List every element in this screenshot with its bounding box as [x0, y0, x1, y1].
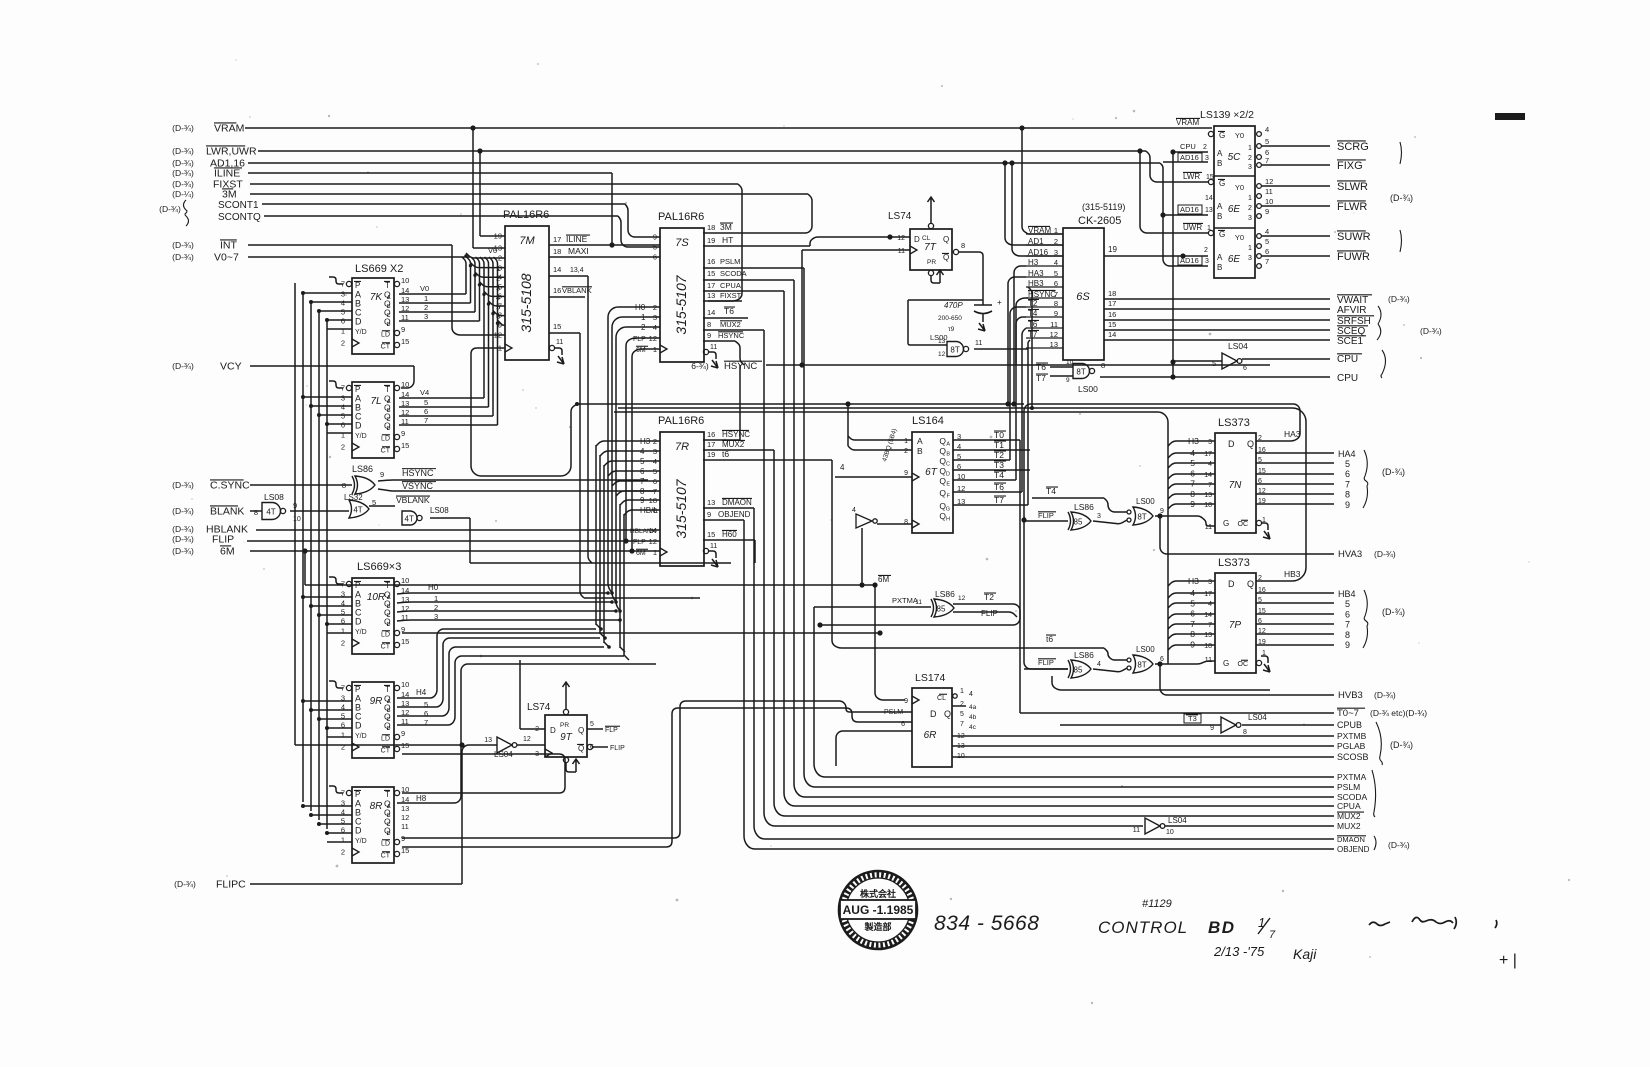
svg-text:Y/D: Y/D [355, 838, 367, 845]
svg-text:LS08: LS08 [264, 492, 284, 502]
IC CK-2605 6S [1026, 202, 1125, 360]
svg-text:14: 14 [1108, 330, 1116, 339]
wire HA3 loop [1021, 404, 1300, 669]
svg-text:11: 11 [710, 543, 717, 550]
svg-text:UWR: UWR [1183, 223, 1202, 232]
svg-text:LS00: LS00 [1136, 645, 1155, 654]
svg-text:2: 2 [498, 254, 502, 263]
svg-text:2: 2 [341, 639, 345, 648]
svg-text:16: 16 [707, 430, 715, 439]
svg-text:3: 3 [424, 312, 428, 321]
svg-text:9: 9 [707, 510, 711, 519]
svg-text:Q: Q [943, 253, 949, 262]
svg-text:9: 9 [904, 698, 908, 705]
svg-text:AUG -1.1985: AUG -1.1985 [843, 903, 914, 917]
svg-text:AFVIR: AFVIR [1337, 305, 1366, 316]
svg-text:6: 6 [341, 317, 345, 326]
svg-text:(D-¾): (D-¾) [172, 506, 194, 516]
svg-text:9: 9 [401, 325, 405, 334]
wire long 404 [577, 403, 1024, 405]
svg-text:6M: 6M [220, 546, 235, 558]
svg-text:5: 5 [424, 700, 428, 709]
svg-text:19: 19 [707, 236, 715, 245]
svg-text:7: 7 [341, 580, 345, 589]
svg-text:(D-¾): (D-¾) [172, 361, 194, 371]
IC LS669 7L [352, 382, 394, 458]
svg-text:4: 4 [341, 703, 345, 712]
svg-text:V4: V4 [420, 388, 429, 397]
svg-text:5: 5 [341, 412, 345, 421]
svg-text:OBJEND: OBJEND [718, 510, 751, 519]
wire taps to 9R inputs [301, 699, 352, 737]
svg-text:D: D [930, 709, 937, 719]
svg-text:12: 12 [401, 813, 409, 822]
flip-flop LS74 9T [520, 660, 625, 772]
IC LS669 7K [341, 263, 410, 354]
stamp AUG-1-1985 [839, 871, 917, 949]
wire HB4-9 outputs [1256, 589, 1405, 650]
svg-text:7T: 7T [924, 242, 937, 253]
svg-text:6: 6 [341, 617, 345, 626]
svg-text:14: 14 [1204, 612, 1212, 619]
IC PAL16R6 7S [633, 211, 704, 362]
svg-text:C: C [387, 417, 391, 423]
svg-text:9: 9 [1066, 377, 1070, 384]
label B rows [1337, 722, 1413, 765]
svg-text:9: 9 [1345, 640, 1350, 650]
svg-text:9R: 9R [370, 696, 383, 707]
gate LS32 LS08 VBLANK [344, 493, 470, 563]
svg-text:3: 3 [1205, 258, 1209, 265]
svg-text:834 - 5668: 834 - 5668 [934, 912, 1039, 935]
gate LS86 C.SYNC [172, 464, 656, 494]
svg-text:(D-¾): (D-¾) [172, 546, 194, 556]
wire HBLANK [172, 524, 660, 536]
svg-text:C: C [946, 462, 950, 468]
svg-text:C: C [387, 613, 391, 619]
svg-text:FLIP: FLIP [212, 534, 234, 546]
svg-text:T7: T7 [994, 495, 1004, 505]
svg-text:+ |: + | [1499, 952, 1517, 969]
svg-text:2/13 -'75: 2/13 -'75 [1213, 944, 1265, 959]
svg-text:LD: LD [381, 841, 390, 848]
inverter LS04 5E4 [484, 736, 545, 759]
svg-text:13: 13 [707, 291, 715, 300]
wire FLIPC [174, 742, 497, 890]
wire 6M [172, 349, 905, 700]
svg-text:7: 7 [1208, 482, 1212, 489]
svg-text:5: 5 [498, 283, 502, 292]
label A rows [1337, 770, 1410, 854]
svg-text:7: 7 [1265, 156, 1269, 165]
svg-text:8: 8 [1345, 490, 1350, 500]
svg-text:CL: CL [922, 235, 931, 242]
svg-text:15: 15 [707, 269, 715, 278]
svg-text:VRAM: VRAM [214, 123, 244, 135]
svg-text:14: 14 [707, 308, 715, 317]
svg-text:4: 4 [1208, 601, 1212, 608]
svg-text:4: 4 [1208, 461, 1212, 468]
svg-text:7: 7 [1208, 622, 1212, 629]
IC LS139 5C/6E [1200, 109, 1255, 278]
wire VRAM bus [172, 123, 1212, 235]
svg-text:(D-¾): (D-¾) [1374, 690, 1396, 700]
IC LS669 9R [352, 682, 394, 758]
svg-text:7L: 7L [370, 396, 381, 407]
svg-text:(D-¼): (D-¼) [172, 189, 194, 199]
svg-text:18: 18 [1204, 502, 1212, 509]
wire 7P input fan [1168, 581, 1215, 650]
svg-text:H8: H8 [416, 794, 427, 803]
wire taps to 8R inputs [301, 804, 352, 842]
svg-text:FLP: FLP [633, 539, 646, 546]
svg-text:C: C [387, 313, 391, 319]
IC LS164 6T [835, 415, 953, 533]
svg-text:8: 8 [1101, 361, 1105, 370]
wire HA4-9 outputs [1256, 449, 1405, 510]
svg-text:t6: t6 [1046, 634, 1053, 644]
svg-text:LS00: LS00 [930, 333, 948, 342]
svg-text:OBJEND: OBJEND [1337, 845, 1370, 854]
svg-text:VCY: VCY [220, 361, 242, 373]
svg-text:18: 18 [1204, 643, 1212, 650]
svg-text:11: 11 [556, 339, 563, 346]
svg-text:D: D [1228, 439, 1235, 449]
wire 7S H inputs [608, 307, 660, 613]
wire 6S fan [1005, 266, 1026, 407]
wire 7L outputs to V bus [399, 388, 498, 425]
svg-text:G: G [946, 507, 950, 513]
svg-text:LS86: LS86 [352, 464, 373, 474]
svg-text:7: 7 [1265, 257, 1269, 266]
wire T0~7 row [1020, 708, 1427, 719]
svg-text:12: 12 [897, 235, 905, 242]
svg-text:17: 17 [707, 440, 715, 449]
svg-text:FLP: FLP [605, 727, 618, 734]
svg-text:A: A [1217, 202, 1223, 211]
svg-text:LS373: LS373 [1218, 417, 1250, 429]
svg-text:T6: T6 [724, 306, 734, 316]
svg-text:CONTROL: CONTROL [1098, 918, 1188, 937]
svg-text:MUX2: MUX2 [722, 440, 745, 449]
svg-text:6: 6 [424, 709, 428, 718]
svg-text:SCOSB: SCOSB [1337, 752, 1369, 762]
svg-text:8T: 8T [950, 346, 959, 355]
svg-text:SCODA: SCODA [720, 269, 747, 278]
svg-text:2: 2 [1248, 205, 1252, 212]
wire loop below 7M [471, 348, 579, 476]
svg-text:4: 4 [341, 808, 345, 817]
svg-text:Q: Q [939, 436, 946, 446]
svg-text:10: 10 [401, 680, 409, 689]
svg-text:12: 12 [1265, 177, 1273, 186]
svg-text:(D-¾): (D-¾) [1388, 840, 1410, 850]
IC LS373 7P [1188, 557, 1270, 673]
svg-text:5C: 5C [1228, 152, 1242, 163]
IC PAL16R6 7M [470, 125, 564, 364]
svg-text:18: 18 [1108, 289, 1116, 298]
svg-text:16: 16 [1108, 310, 1116, 319]
svg-text:12: 12 [938, 351, 946, 358]
svg-text:14: 14 [649, 526, 657, 535]
svg-text:4b: 4b [969, 714, 977, 721]
svg-text:17: 17 [553, 235, 561, 244]
svg-text:9: 9 [380, 470, 384, 479]
wire 6T inputs [845, 401, 912, 450]
svg-text:85: 85 [1074, 518, 1083, 527]
svg-text:HA4: HA4 [1338, 449, 1356, 459]
svg-text:CT: CT [381, 748, 391, 755]
svg-text:4: 4 [969, 691, 973, 698]
svg-text:9: 9 [904, 470, 908, 477]
svg-text:LS164: LS164 [912, 415, 944, 427]
wire 7R outputs [703, 365, 832, 567]
svg-text:MUX2: MUX2 [1337, 811, 1361, 821]
svg-text:4: 4 [498, 273, 502, 282]
svg-text:6: 6 [1265, 247, 1269, 256]
svg-text:7: 7 [341, 789, 345, 798]
svg-text:7: 7 [341, 684, 345, 693]
svg-text:LD: LD [381, 332, 390, 339]
svg-text:1: 1 [434, 594, 438, 603]
svg-text:HB3: HB3 [1284, 569, 1301, 579]
svg-text:HSYNC: HSYNC [722, 430, 750, 439]
svg-text:PSLM: PSLM [884, 709, 903, 716]
svg-text:3: 3 [341, 394, 345, 403]
svg-text:315-5107: 315-5107 [673, 274, 689, 334]
svg-text:SCRG: SCRG [1337, 141, 1369, 153]
svg-text:11: 11 [710, 344, 717, 351]
svg-text:MUX2: MUX2 [720, 320, 741, 329]
svg-text:VSYNC: VSYNC [402, 481, 434, 491]
svg-text:2: 2 [424, 303, 428, 312]
gate LS86 LS00 7P latch enable [1024, 634, 1270, 690]
svg-text:(D-¾): (D-¾) [1390, 740, 1413, 750]
svg-text:2: 2 [1203, 144, 1207, 151]
svg-text:16: 16 [553, 286, 561, 295]
svg-text:B: B [387, 813, 391, 819]
wire taps to 7L inputs [301, 395, 352, 433]
svg-text:5: 5 [424, 398, 428, 407]
wire HB3 loop [618, 287, 1306, 581]
svg-text:8T: 8T [1076, 368, 1085, 377]
svg-text:6M: 6M [878, 575, 889, 584]
svg-text:PXTMA: PXTMA [1337, 772, 1367, 782]
svg-text:LS04: LS04 [1248, 713, 1267, 722]
svg-text:FLIP: FLIP [1038, 658, 1054, 667]
svg-text:PR: PR [927, 259, 936, 266]
svg-text:6M: 6M [636, 550, 646, 557]
svg-text:15: 15 [553, 322, 561, 331]
svg-text:LWR: LWR [1183, 172, 1200, 181]
svg-text:17: 17 [707, 281, 715, 290]
svg-text:1: 1 [341, 836, 345, 845]
svg-text:3: 3 [1248, 215, 1252, 222]
svg-text:(D-¾): (D-¾) [1382, 467, 1405, 477]
svg-text:C.SYNC: C.SYNC [210, 480, 250, 492]
wire CPUB row [1060, 713, 1362, 736]
svg-text:T3: T3 [994, 460, 1004, 470]
gate LS86 PXTMA [814, 589, 1020, 628]
svg-text:7: 7 [341, 384, 345, 393]
svg-text:D: D [355, 421, 362, 431]
wire taps to 7K inputs [301, 291, 352, 329]
svg-text:9: 9 [1160, 508, 1164, 515]
svg-text:Kaji: Kaji [1293, 946, 1317, 962]
svg-text:3: 3 [498, 264, 502, 273]
svg-text:5: 5 [341, 308, 345, 317]
svg-text:CPU: CPU [1180, 142, 1196, 151]
wire 9R outputs H bus [397, 629, 624, 727]
svg-text:CT: CT [381, 644, 391, 651]
svg-text:HT: HT [722, 235, 733, 245]
svg-text:G: G [1219, 131, 1225, 140]
svg-text:8R: 8R [370, 801, 383, 812]
svg-text:3: 3 [341, 799, 345, 808]
svg-text:85: 85 [937, 605, 946, 614]
svg-text:Y/D: Y/D [355, 629, 367, 636]
svg-text:3: 3 [341, 290, 345, 299]
svg-text:D: D [387, 726, 391, 732]
svg-text:D: D [387, 831, 391, 837]
wire 10R outputs H bus [397, 583, 883, 636]
svg-text:3M: 3M [222, 189, 237, 201]
svg-text:CT: CT [381, 448, 391, 455]
svg-text:PAL16R6: PAL16R6 [658, 415, 704, 427]
svg-text:ILINE: ILINE [566, 234, 588, 244]
wire HVA3 [1157, 513, 1395, 560]
svg-text:D: D [946, 472, 950, 478]
svg-text:2: 2 [341, 443, 345, 452]
svg-text:(315-5119): (315-5119) [1082, 202, 1125, 212]
svg-text:PXTMB: PXTMB [1337, 731, 1367, 741]
svg-text:6-¾): 6-¾) [691, 361, 709, 371]
gate LS08 4T BLANK [172, 492, 349, 523]
svg-text:LS86: LS86 [1074, 650, 1094, 660]
svg-text:(D-¾): (D-¾) [1374, 549, 1396, 559]
svg-text:1: 1 [960, 688, 964, 695]
svg-text:D: D [355, 617, 362, 627]
svg-text:FIXST: FIXST [720, 291, 742, 300]
svg-text:FUWR: FUWR [1337, 251, 1370, 263]
svg-text:Y0: Y0 [1235, 131, 1244, 140]
svg-text:11: 11 [401, 822, 409, 831]
wire V0~7 bus [172, 252, 470, 264]
svg-text:1: 1 [1248, 245, 1252, 252]
svg-text:INT: INT [220, 240, 238, 252]
svg-text:LWR,UWR: LWR,UWR [206, 146, 257, 158]
svg-text:15: 15 [1108, 320, 1116, 329]
svg-text:H0: H0 [428, 583, 439, 592]
svg-text:Q: Q [939, 476, 946, 486]
svg-text:T2: T2 [984, 592, 994, 602]
svg-text:A: A [946, 442, 950, 448]
svg-text:SCONT1: SCONT1 [218, 200, 259, 211]
svg-text:V0~7: V0~7 [214, 252, 239, 264]
svg-text:1: 1 [341, 431, 345, 440]
svg-text:DMAON: DMAON [1337, 835, 1365, 844]
svg-text:1: 1 [653, 548, 657, 557]
svg-text:4: 4 [341, 299, 345, 308]
label date [1213, 944, 1317, 962]
wire HSYNC net [691, 298, 1270, 372]
svg-text:(D-¾): (D-¾) [172, 534, 194, 544]
gate LS00 8T T6T7 [1036, 359, 1330, 394]
svg-text:10: 10 [293, 516, 301, 523]
svg-text:15: 15 [401, 337, 409, 346]
svg-text:1: 1 [1248, 145, 1252, 152]
svg-text:H: H [946, 517, 950, 523]
mark top dash [1495, 113, 1525, 120]
svg-text:(D-¾): (D-¾) [1388, 294, 1410, 304]
svg-text:200-650: 200-650 [938, 315, 962, 322]
svg-text:4c: 4c [969, 724, 977, 731]
svg-text:D: D [387, 426, 391, 432]
svg-text:D: D [355, 317, 362, 327]
svg-text:8: 8 [342, 481, 346, 490]
svg-text:PSLM: PSLM [720, 257, 740, 266]
svg-text:LS04: LS04 [1228, 341, 1248, 351]
svg-text:LS04: LS04 [494, 750, 513, 759]
svg-text:4: 4 [1265, 125, 1269, 134]
svg-text:CPUA: CPUA [720, 281, 741, 290]
svg-text:12: 12 [649, 537, 657, 546]
svg-text:7: 7 [1345, 620, 1350, 630]
svg-text:HB4: HB4 [1338, 589, 1356, 599]
svg-text:OC: OC [1238, 661, 1249, 668]
svg-text:(D-¾): (D-¾) [174, 879, 196, 889]
wire FLIP [172, 338, 660, 546]
svg-text:CK-2605: CK-2605 [1078, 215, 1121, 227]
svg-text:12: 12 [649, 334, 657, 343]
svg-text:18: 18 [553, 247, 561, 256]
svg-text:A: A [917, 436, 923, 446]
svg-text:1: 1 [424, 294, 428, 303]
svg-text:Q: Q [578, 726, 584, 735]
svg-text:A: A [387, 804, 391, 810]
svg-text:11: 11 [1133, 827, 1140, 834]
svg-text:Q: Q [943, 235, 949, 244]
signature [1369, 917, 1497, 929]
svg-text:Y/D: Y/D [355, 329, 367, 336]
svg-text:CL: CL [937, 695, 946, 702]
svg-text:9: 9 [498, 321, 502, 330]
svg-text:A: A [387, 699, 391, 705]
svg-text:HVB3: HVB3 [1338, 690, 1363, 701]
svg-text:8: 8 [1345, 630, 1350, 640]
svg-text:1: 1 [341, 627, 345, 636]
svg-text:T2: T2 [994, 450, 1004, 460]
IC LS373 7N [1188, 417, 1270, 539]
svg-text:3: 3 [1208, 579, 1212, 586]
svg-text:10: 10 [1265, 197, 1273, 206]
svg-text:LS373: LS373 [1218, 557, 1250, 569]
svg-text:1: 1 [1248, 195, 1252, 202]
svg-text:CPUB: CPUB [1337, 720, 1362, 730]
svg-text:FLIPC: FLIPC [216, 879, 246, 891]
svg-text:Y/D: Y/D [355, 433, 367, 440]
svg-text:8T: 8T [1137, 513, 1146, 522]
svg-text:6: 6 [1345, 609, 1350, 619]
svg-text:6: 6 [341, 421, 345, 430]
svg-text:2: 2 [1248, 155, 1252, 162]
svg-text:PAL16R6: PAL16R6 [658, 211, 704, 223]
svg-text:B: B [387, 408, 391, 414]
wire 8R output loops to 6R [402, 701, 912, 847]
svg-text:6: 6 [901, 721, 905, 728]
svg-text:7: 7 [960, 721, 964, 728]
svg-text:6: 6 [653, 253, 657, 262]
